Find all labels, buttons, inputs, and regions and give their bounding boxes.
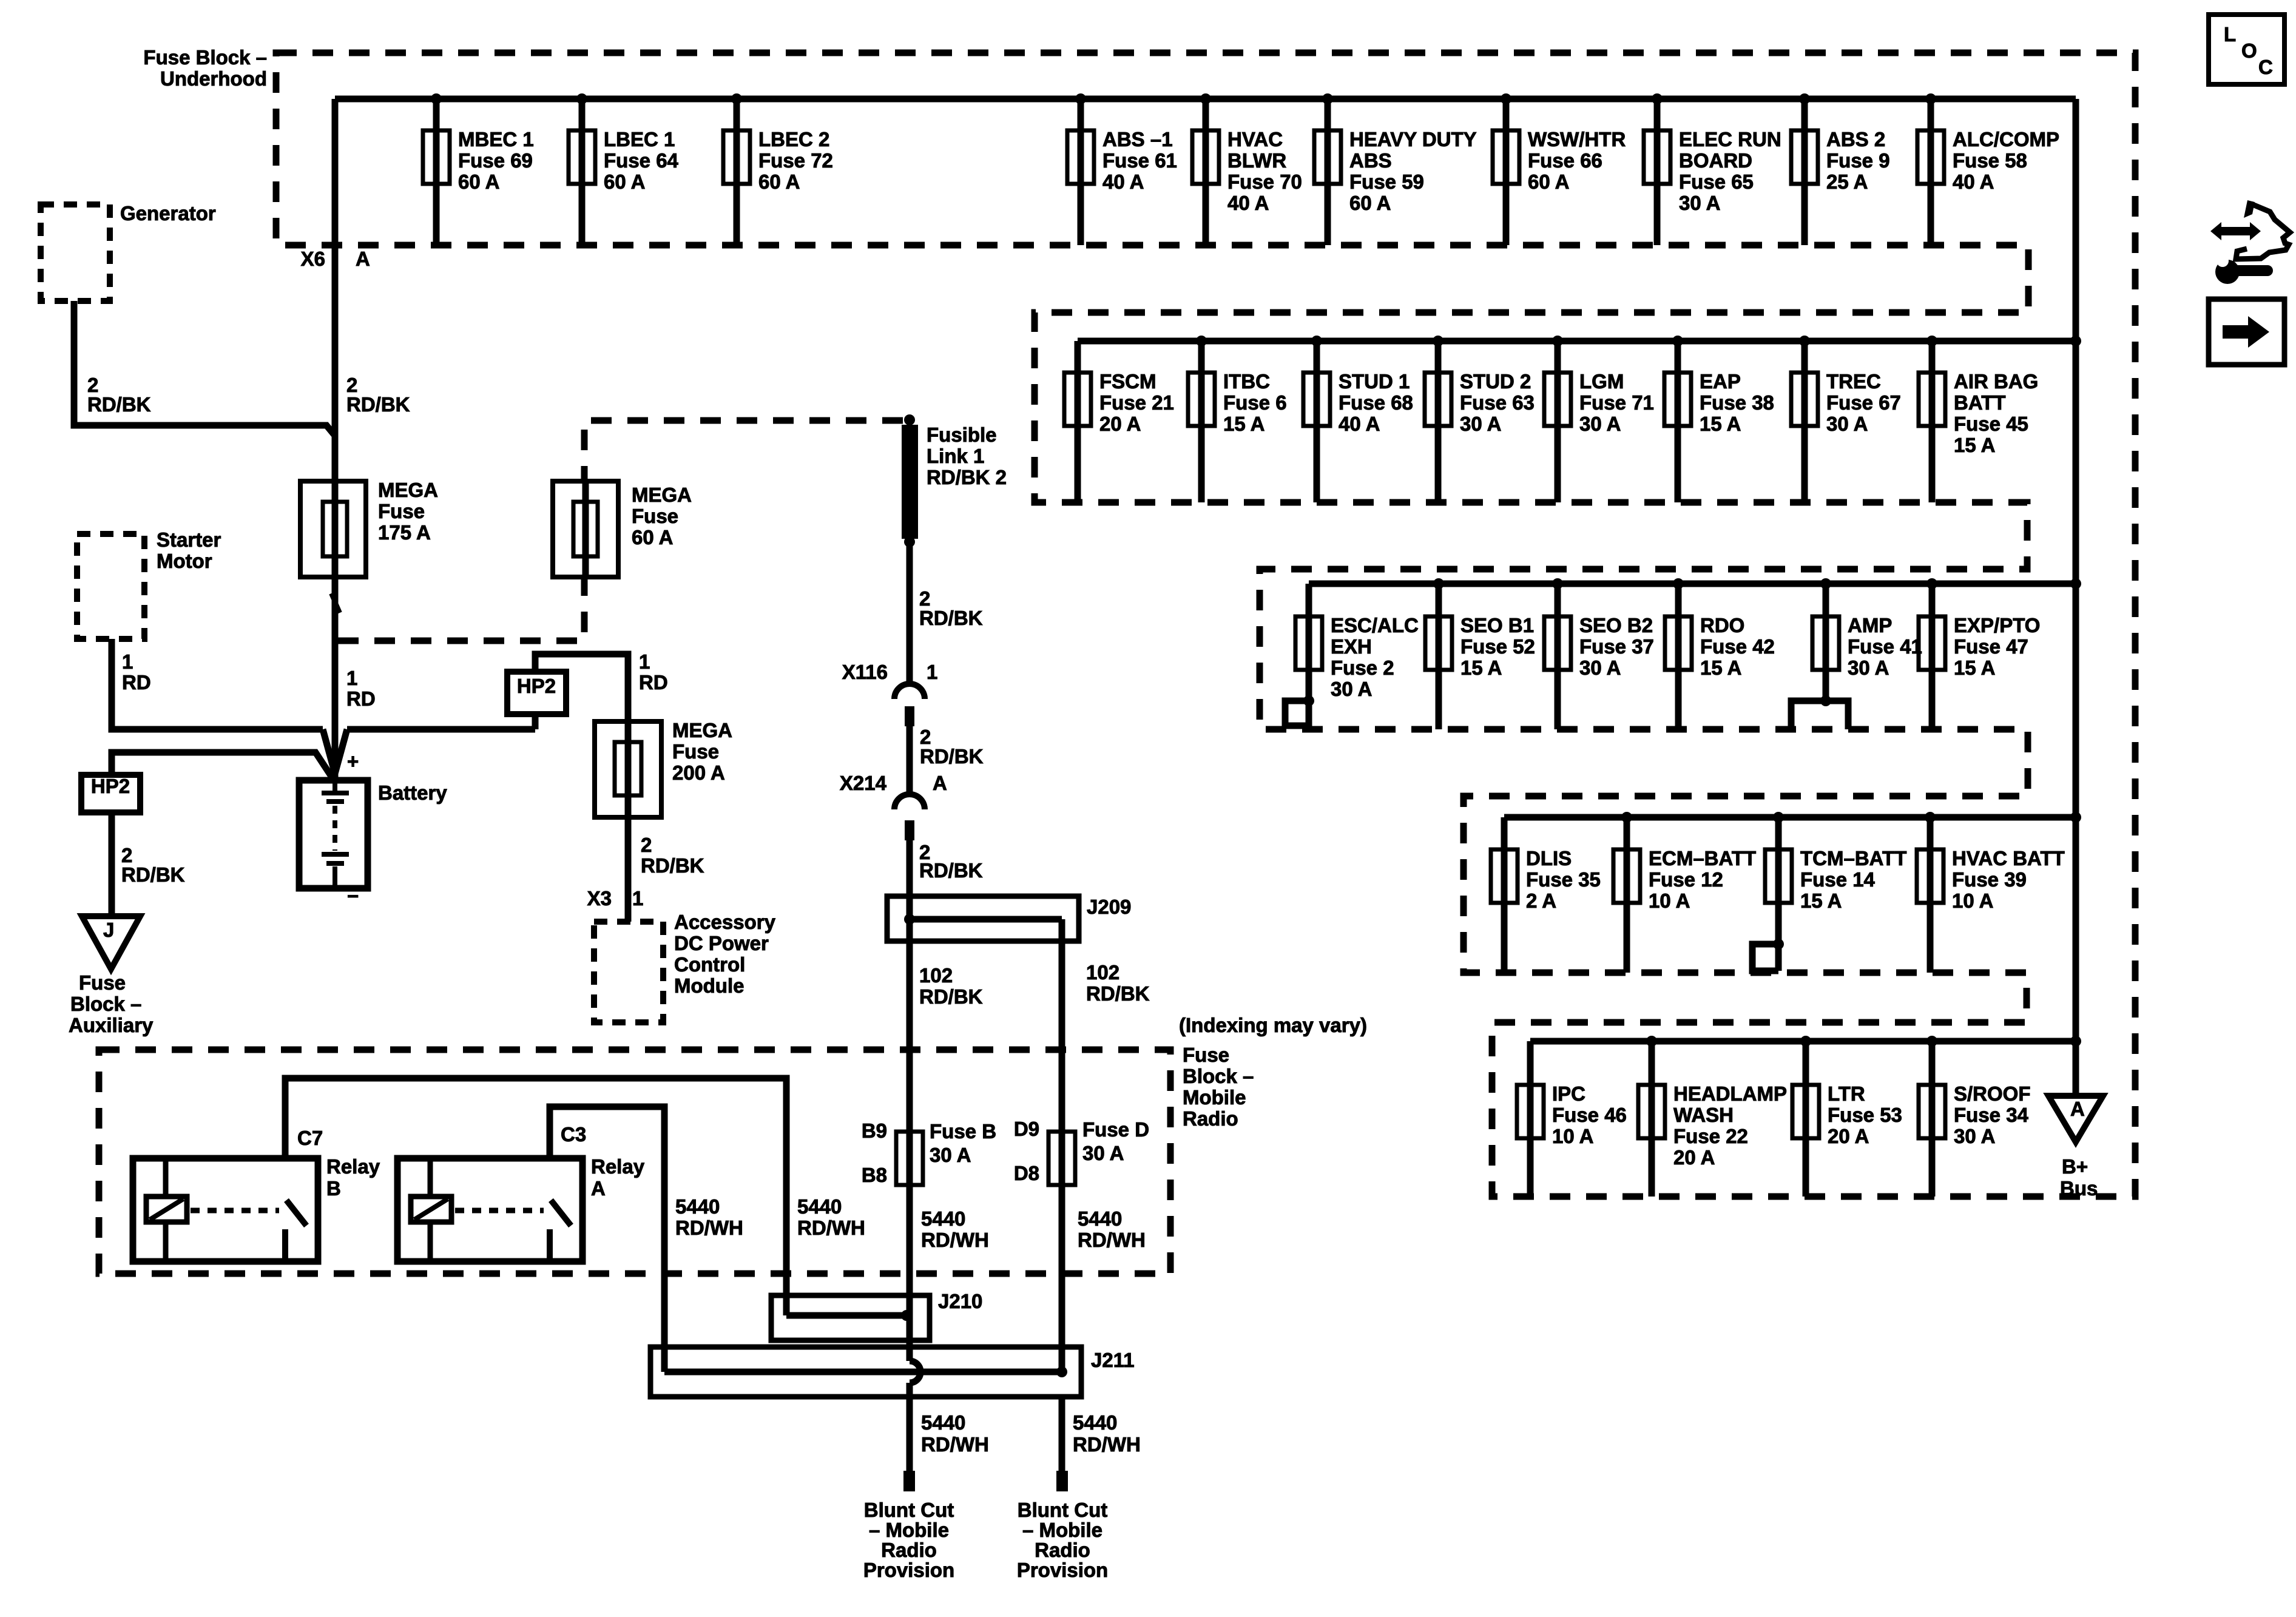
svg-text:Fuse 38: Fuse 38 (1700, 391, 1774, 414)
svg-text:30 A: 30 A (930, 1144, 971, 1166)
svg-text:MEGA: MEGA (378, 479, 438, 501)
fuse ALC/COMP (1917, 93, 2059, 245)
label circuit 1 RD (battery feed) (346, 667, 376, 710)
svg-text:J210: J210 (938, 1290, 982, 1312)
svg-text:EXH: EXH (1331, 635, 1372, 658)
svg-text:AMP: AMP (1848, 614, 1892, 636)
svg-text:30 A: 30 A (1579, 657, 1621, 679)
svg-text:60 A: 60 A (1349, 192, 1391, 214)
svg-text:Block –: Block – (70, 993, 141, 1015)
wire B+ vertical bus (2073, 99, 2079, 1096)
component Battery (299, 750, 447, 907)
blunt cut terminal (left) (903, 1471, 915, 1491)
net symbol A triangle B+ Bus (2048, 1096, 2103, 1200)
wire kink mark (331, 593, 340, 613)
label circuit 5440 RD/WH (relay B wire) (797, 1195, 865, 1239)
svg-text:RD/BK: RD/BK (919, 607, 983, 629)
svg-text:X6: X6 (301, 248, 325, 270)
svg-text:Fuse 22: Fuse 22 (1673, 1125, 1748, 1147)
svg-text:Fuse 46: Fuse 46 (1552, 1104, 1627, 1126)
svg-text:20 A: 20 A (1828, 1125, 1869, 1147)
svg-text:ESC/ALC: ESC/ALC (1331, 614, 1419, 636)
junction row5-B+ (2070, 1036, 2081, 1047)
svg-text:RD/WH: RD/WH (1078, 1229, 1146, 1251)
svg-text:J211: J211 (1091, 1349, 1135, 1371)
svg-text:C3: C3 (561, 1123, 586, 1146)
svg-text:Fuse 58: Fuse 58 (1953, 149, 2027, 172)
component box (dashed) Fuse Block - Mobile Radio (99, 1050, 1170, 1274)
svg-text:20 A: 20 A (1099, 413, 1141, 435)
label circuit 5440 RD/WH (fuse D wire) (1078, 1207, 1146, 1251)
fuse MBEC 1 (423, 93, 534, 245)
blunt cut terminal (right) (1056, 1471, 1068, 1491)
svg-text:60 A: 60 A (632, 526, 673, 549)
fuse EXP/PTO (1919, 578, 2040, 729)
fuse AIR BAG (1919, 336, 2038, 502)
fusible link 1 RD/BK 2 (902, 414, 1007, 547)
svg-text:1: 1 (927, 661, 937, 683)
svg-text:WASH: WASH (1673, 1104, 1734, 1126)
fuse ITBC (1188, 336, 1287, 502)
svg-text:Radio: Radio (1183, 1107, 1238, 1130)
svg-text:30 A: 30 A (1460, 413, 1501, 435)
fuse STUD 2 (1425, 336, 1535, 502)
svg-text:15 A: 15 A (1700, 657, 1741, 679)
svg-text:5440: 5440 (1073, 1411, 1117, 1434)
component Starter Motor (dashed box) (77, 534, 144, 639)
connector HP2 (right) (507, 672, 566, 714)
fuse DLIS (1491, 817, 1601, 973)
wire J209 right leg to Fuse D (1059, 919, 1065, 1132)
svg-text:Fusible: Fusible (927, 424, 997, 446)
fuse SEO B1 (1425, 578, 1535, 729)
svg-text:EAP: EAP (1700, 370, 1741, 393)
svg-text:Fuse 21: Fuse 21 (1099, 391, 1174, 414)
svg-text:30 A: 30 A (1579, 413, 1621, 435)
svg-text:15 A: 15 A (1800, 890, 1842, 912)
svg-text:BOARD: BOARD (1679, 149, 1752, 172)
svg-text:RD: RD (639, 671, 668, 694)
svg-text:Relay: Relay (326, 1155, 380, 1178)
svg-text:ABS 2: ABS 2 (1826, 128, 1885, 150)
svg-text:Fuse 14: Fuse 14 (1800, 868, 1876, 891)
svg-text:SEO B1: SEO B1 (1460, 614, 1534, 636)
svg-text:STUD 2: STUD 2 (1460, 370, 1531, 393)
svg-text:Fuse 39: Fuse 39 (1952, 868, 2027, 891)
svg-text:RD/WH: RD/WH (921, 1229, 989, 1251)
svg-text:Radio: Radio (1035, 1539, 1090, 1561)
svg-text:Relay: Relay (591, 1155, 645, 1178)
wire fuse D to blunt cut (1059, 1397, 1065, 1471)
svg-text:BATT: BATT (1954, 391, 2006, 414)
fuse MEGA Fuse 60 A (553, 481, 692, 577)
svg-text:5440: 5440 (797, 1195, 842, 1218)
label Fuse Block - Mobile Radio (1183, 1044, 1254, 1130)
svg-text:Fuse 42: Fuse 42 (1700, 635, 1775, 658)
svg-text:1: 1 (632, 887, 643, 910)
svg-text:Fuse 65: Fuse 65 (1679, 170, 1754, 193)
svg-text:ABS –1: ABS –1 (1102, 128, 1173, 150)
fuse LGM (1544, 336, 1654, 502)
svg-text:Fuse 12: Fuse 12 (1649, 868, 1723, 891)
svg-text:40 A: 40 A (1227, 192, 1269, 214)
svg-text:X116: X116 (842, 661, 888, 683)
svg-text:Bus: Bus (2060, 1177, 2098, 1200)
junction row3-B+ (2070, 578, 2081, 589)
svg-text:Fuse 69: Fuse 69 (458, 149, 533, 172)
label Relay B (326, 1155, 380, 1200)
svg-text:A: A (2070, 1098, 2085, 1120)
svg-text:Fuse 34: Fuse 34 (1954, 1104, 2029, 1126)
svg-text:C: C (2258, 56, 2273, 78)
svg-text:RD/BK: RD/BK (919, 859, 983, 882)
svg-text:60 A: 60 A (458, 170, 499, 193)
svg-text:Mobile: Mobile (1183, 1086, 1246, 1109)
fuse LBEC 1 (569, 93, 679, 245)
svg-text:RD/BK: RD/BK (346, 393, 410, 416)
connector X214 pin A (840, 772, 947, 840)
svg-text:B9: B9 (862, 1119, 887, 1142)
svg-text:Fuse 35: Fuse 35 (1526, 868, 1601, 891)
svg-text:Fuse 47: Fuse 47 (1954, 635, 2028, 658)
wire X6-A feed (bus to MEGA fuse 175A) (332, 99, 339, 481)
svg-text:RD/BK: RD/BK (87, 393, 151, 416)
wire generator to battery node (74, 301, 335, 436)
svg-text:HP2: HP2 (91, 775, 130, 797)
label circuit 2 RD/BK (above X214) (920, 726, 984, 768)
svg-text:Blunt Cut: Blunt Cut (1018, 1499, 1107, 1521)
label circuit 5440 RD/WH (fuse B wire) (921, 1207, 989, 1251)
svg-text:WSW/HTR: WSW/HTR (1528, 128, 1626, 150)
wire battery to HP2 right (535, 654, 628, 729)
label Fuse Block - Underhood (143, 46, 267, 90)
label circuit 102 RD/BK (left) (919, 964, 983, 1008)
svg-text:Auxiliary: Auxiliary (69, 1014, 154, 1036)
svg-text:Fuse 72: Fuse 72 (758, 149, 833, 172)
svg-text:HEAVY DUTY: HEAVY DUTY (1349, 128, 1477, 150)
svg-text:RD/WH: RD/WH (921, 1433, 989, 1456)
svg-text:5440: 5440 (921, 1411, 965, 1434)
svg-text:1: 1 (639, 650, 650, 673)
svg-text:30 A: 30 A (1848, 657, 1889, 679)
svg-text:Motor: Motor (157, 550, 212, 572)
svg-text:ECM–BATT: ECM–BATT (1649, 847, 1756, 869)
fuse ECM–BATT (1613, 812, 1756, 973)
svg-text:1: 1 (122, 650, 133, 673)
svg-text:Starter: Starter (157, 528, 221, 551)
svg-text:10 A: 10 A (1649, 890, 1690, 912)
wire fuse B to blunt cut (907, 1383, 913, 1471)
wire row1 bus (335, 96, 2076, 103)
svg-text:DLIS: DLIS (1526, 847, 1572, 869)
fuse WSW/HTR (1493, 93, 1626, 245)
wire hop of fuse B over J211 splice (910, 1361, 920, 1383)
svg-text:RD/WH: RD/WH (675, 1217, 743, 1239)
svg-text:AIR BAG: AIR BAG (1954, 370, 2038, 393)
svg-text:40 A: 40 A (1102, 170, 1144, 193)
svg-text:30 A: 30 A (1954, 1125, 1995, 1147)
svg-text:MEGA: MEGA (632, 484, 692, 506)
svg-text:HVAC: HVAC (1227, 128, 1283, 150)
svg-text:1: 1 (346, 667, 357, 689)
stub staple below AMP fuse (1791, 701, 1848, 729)
label circuit 5440 RD/WH (below J211 right) (1073, 1411, 1141, 1456)
relay Relay A (397, 1158, 582, 1261)
fuse LTR (1792, 1036, 1902, 1197)
svg-text:Fuse 61: Fuse 61 (1102, 149, 1177, 172)
svg-text:Fuse 2: Fuse 2 (1331, 657, 1394, 679)
wire MEGA175 to battery (332, 577, 339, 780)
svg-text:RD/BK: RD/BK (919, 985, 983, 1008)
label circuit 5440 RD/WH (below J211 left) (921, 1411, 989, 1456)
svg-text:30 A: 30 A (1826, 413, 1868, 435)
svg-text:Fuse 53: Fuse 53 (1828, 1104, 1902, 1126)
svg-text:40 A: 40 A (1953, 170, 1994, 193)
fuse TCM–BATT (1765, 812, 1906, 971)
svg-text:60 A: 60 A (604, 170, 645, 193)
splice pack J211 (650, 1347, 1135, 1397)
svg-text:L: L (2224, 23, 2236, 46)
svg-text:102: 102 (1086, 961, 1119, 984)
svg-text:Fuse: Fuse (378, 500, 425, 522)
svg-text:Control: Control (674, 953, 745, 976)
svg-text:X214: X214 (840, 772, 887, 794)
svg-text:5440: 5440 (675, 1195, 720, 1218)
svg-text:FSCM: FSCM (1099, 370, 1156, 393)
svg-text:RD/BK: RD/BK (121, 863, 185, 886)
wire row5 bus (1530, 1038, 2076, 1045)
wire X214 to J209 (907, 840, 913, 896)
label Blunt Cut - Mobile Radio Provision (right) (1017, 1499, 1108, 1581)
svg-text:LBEC 1: LBEC 1 (604, 128, 675, 150)
svg-text:A: A (356, 248, 370, 270)
label circuit 2 RD/BK (X3 feed) (641, 834, 704, 877)
svg-text:B: B (326, 1177, 341, 1200)
svg-text:Fuse 63: Fuse 63 (1460, 391, 1535, 414)
icon arrow box (2209, 299, 2284, 365)
svg-text:C7: C7 (297, 1127, 323, 1149)
svg-text:200 A: 200 A (672, 761, 725, 784)
label circuit 2 RD/BK (aux feed) (121, 844, 185, 886)
svg-text:J: J (103, 919, 114, 941)
svg-text:RD/WH: RD/WH (1073, 1433, 1141, 1456)
svg-text:Fuse 71: Fuse 71 (1579, 391, 1654, 414)
svg-text:DC Power: DC Power (674, 932, 769, 954)
svg-text:Fuse 9: Fuse 9 (1826, 149, 1890, 172)
svg-text:Fuse 45: Fuse 45 (1954, 413, 2028, 435)
svg-text:RD/BK: RD/BK (920, 745, 984, 768)
svg-text:– Mobile: – Mobile (869, 1519, 949, 1541)
wire row4 bus (1504, 814, 2076, 821)
fuse EAP (1664, 336, 1774, 502)
wire MEGA200 to X3 (625, 817, 632, 922)
fuse MEGA Fuse 200 A (595, 719, 732, 817)
svg-text:Fuse: Fuse (1183, 1044, 1229, 1066)
label Accessory DC Power Control Module (674, 911, 776, 997)
wire fusible link to X116 (907, 542, 913, 684)
svg-text:30 A: 30 A (1679, 192, 1720, 214)
svg-text:Module: Module (674, 974, 744, 997)
svg-text:RD/BK: RD/BK (641, 854, 704, 877)
svg-text:60 A: 60 A (1528, 170, 1569, 193)
fuse ESC/ALC (1295, 584, 1419, 729)
label X3 / 1 (587, 887, 644, 910)
dashed boundary through MEGA Fuse 60 A (338, 420, 906, 641)
svg-text:STUD 1: STUD 1 (1339, 370, 1410, 393)
fuse LBEC 2 (723, 93, 833, 245)
svg-text:ITBC: ITBC (1223, 370, 1270, 393)
svg-text:RD: RD (122, 671, 151, 694)
svg-text:J209: J209 (1087, 896, 1131, 918)
svg-text:RD/BK 2: RD/BK 2 (927, 466, 1007, 488)
fuse AMP (1812, 578, 1922, 701)
net symbol J triangle (82, 916, 140, 969)
svg-text:15 A: 15 A (1700, 413, 1741, 435)
wire row3 bus (1309, 581, 2076, 587)
svg-text:15 A: 15 A (1954, 657, 1995, 679)
connector HP2 (left) (81, 775, 140, 812)
svg-text:IPC: IPC (1552, 1082, 1585, 1105)
svg-text:60 A: 60 A (758, 170, 800, 193)
svg-text:30 A: 30 A (1331, 678, 1372, 700)
label circuit 1 RD (starter) (122, 650, 151, 694)
svg-text:RDO: RDO (1700, 614, 1744, 636)
svg-text:5440: 5440 (1078, 1207, 1122, 1230)
svg-text:LBEC 2: LBEC 2 (758, 128, 829, 150)
fuse ABS 2 (1791, 93, 1890, 245)
junction AMP stub (1820, 695, 1831, 706)
svg-text:RD: RD (346, 687, 376, 710)
svg-text:MBEC 1: MBEC 1 (458, 128, 534, 150)
svg-text:HP2: HP2 (517, 675, 556, 697)
svg-text:25 A: 25 A (1826, 170, 1868, 193)
svg-text:EXP/PTO: EXP/PTO (1954, 614, 2040, 636)
svg-text:(Indexing may vary): (Indexing may vary) (1179, 1014, 1367, 1036)
svg-text:Fuse Block –: Fuse Block – (143, 46, 267, 69)
fuse HEADLAMP (1638, 1036, 1787, 1197)
svg-text:−: − (347, 885, 359, 907)
fuse ABS –1 (1067, 93, 1177, 245)
label circuit 2 RD/BK (above J209) (919, 841, 983, 882)
fuse ELEC RUN (1644, 93, 1781, 245)
junction row4-B+ (2070, 812, 2081, 823)
splice pack J209 (887, 896, 1131, 941)
svg-text:Fuse 70: Fuse 70 (1227, 170, 1302, 193)
wire relay A C3 to J211 (550, 1107, 664, 1372)
svg-text:LTR: LTR (1828, 1082, 1865, 1105)
wire relay B C7 to J210 (285, 1078, 786, 1315)
label circuit 1 RD (DC power feed) (639, 650, 668, 694)
svg-text:Provision: Provision (863, 1559, 954, 1581)
svg-text:15 A: 15 A (1460, 657, 1502, 679)
svg-text:Fuse: Fuse (79, 971, 126, 994)
svg-text:RD/WH: RD/WH (797, 1217, 865, 1239)
svg-text:175 A: 175 A (378, 521, 431, 544)
fuse RDO (1665, 578, 1775, 729)
icon LOC box (2209, 15, 2284, 84)
svg-text:SEO B2: SEO B2 (1579, 614, 1653, 636)
junction row2-B+ (2070, 336, 2081, 346)
svg-text:B8: B8 (862, 1164, 887, 1186)
svg-text:Battery: Battery (378, 781, 447, 804)
svg-text:2: 2 (641, 834, 652, 856)
fuse IPC (1517, 1041, 1627, 1197)
svg-text:BLWR: BLWR (1227, 149, 1286, 172)
svg-text:ALC/COMP: ALC/COMP (1953, 128, 2059, 150)
svg-text:Provision: Provision (1017, 1559, 1108, 1581)
svg-text:102: 102 (919, 964, 953, 987)
svg-text:Fuse 67: Fuse 67 (1826, 391, 1901, 414)
svg-text:10 A: 10 A (1952, 890, 1993, 912)
svg-text:A: A (591, 1177, 606, 1200)
svg-text:B+: B+ (2062, 1155, 2088, 1178)
label circuit 2 RD/BK (X6 feed) (346, 374, 410, 416)
fuse FSCM (1064, 341, 1174, 502)
component Accessory DC Power Control Module (dashed box) (594, 922, 663, 1022)
wire starter motor to battery + (112, 639, 535, 774)
svg-text:TCM–BATT: TCM–BATT (1800, 847, 1906, 869)
label circuit 102 RD/BK (right) (1086, 961, 1150, 1005)
label Blunt Cut - Mobile Radio Provision (left) (863, 1499, 954, 1581)
svg-text:HVAC BATT: HVAC BATT (1952, 847, 2065, 869)
wire X116 to X214 (907, 726, 913, 794)
stub square below ESC/ALC EXH fuse (1285, 701, 1309, 726)
svg-text:O: O (2241, 39, 2257, 62)
label circuit 2 RD/BK (generator) (87, 374, 151, 416)
relay Relay B (133, 1158, 318, 1261)
svg-text:Fuse: Fuse (672, 740, 719, 763)
fuse SEO B2 (1544, 578, 1654, 729)
component box (dashed) Fuse Block - Underhood (276, 53, 2135, 1197)
svg-text:A: A (933, 772, 947, 794)
label circuit 2 RD/BK (above X116) (919, 587, 983, 629)
svg-text:20 A: 20 A (1673, 1146, 1715, 1169)
svg-text:Fuse 64: Fuse 64 (604, 149, 679, 172)
svg-text:ELEC RUN: ELEC RUN (1679, 128, 1781, 150)
svg-text:Underhood: Underhood (160, 67, 267, 90)
wire fuse B through J210 to J211 (907, 1185, 913, 1361)
svg-text:D9: D9 (1014, 1118, 1039, 1140)
svg-text:Fuse 41: Fuse 41 (1848, 635, 1922, 658)
svg-text:– Mobile: – Mobile (1022, 1519, 1102, 1541)
fuse TREC (1791, 336, 1901, 502)
wire row2 bus (1078, 338, 2076, 345)
label circuit 5440 RD/WH (relay A wire) (675, 1195, 743, 1239)
svg-text:Generator: Generator (120, 202, 216, 224)
svg-text:5440: 5440 (921, 1207, 965, 1230)
svg-text:HEADLAMP: HEADLAMP (1673, 1082, 1787, 1105)
stub square below TCM-BATT fuse (1752, 944, 1778, 971)
junction ESC stub (1303, 695, 1314, 706)
svg-text:Fuse 59: Fuse 59 (1349, 170, 1424, 193)
svg-text:Fuse 52: Fuse 52 (1460, 635, 1535, 658)
fuse MEGA Fuse 175 A (300, 479, 438, 577)
svg-text:40 A: 40 A (1339, 413, 1380, 435)
svg-text:2 A: 2 A (1526, 890, 1556, 912)
svg-text:Block –: Block – (1183, 1065, 1254, 1087)
svg-text:S/ROOF: S/ROOF (1954, 1082, 2031, 1105)
svg-text:D8: D8 (1014, 1162, 1039, 1184)
fuse HEAVY DUTY (1314, 93, 1477, 245)
svg-text:LGM: LGM (1579, 370, 1624, 393)
svg-text:Fuse 37: Fuse 37 (1579, 635, 1654, 658)
wire J209 left leg to Fuse B (907, 941, 913, 1132)
fuse Fuse D 30 A (1014, 1118, 1149, 1372)
svg-text:Blunt Cut: Blunt Cut (864, 1499, 954, 1521)
svg-text:30 A: 30 A (1082, 1142, 1124, 1164)
svg-text:Link 1: Link 1 (927, 445, 984, 467)
fuse Fuse B 30 A (862, 1119, 996, 1295)
